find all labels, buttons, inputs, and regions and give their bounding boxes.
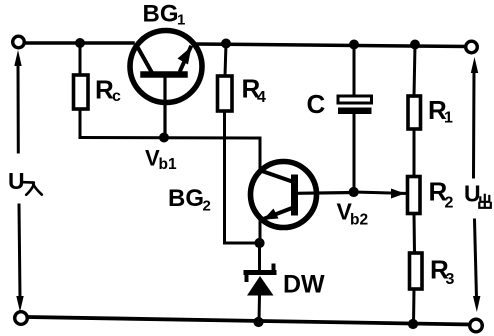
svg-text:BG: BG: [143, 1, 179, 28]
label Vb1: [145, 146, 177, 174]
svg-text:b2: b2: [350, 212, 368, 229]
wire bottom rail: [28, 317, 469, 325]
wire R1 to R2: [413, 129, 416, 177]
label R2: [429, 177, 454, 212]
wire top rail right segment: [196, 44, 467, 47]
node junction top rail at R1: [410, 40, 420, 50]
svg-text:b1: b1: [159, 156, 177, 173]
node junction top rail at R4: [221, 39, 231, 49]
transistor BG1: [130, 31, 202, 138]
svg-text:c: c: [112, 88, 121, 105]
capacitor C: [338, 96, 372, 114]
wire R4 lead to zener node: [225, 242, 259, 245]
svg-text:C: C: [307, 89, 326, 119]
node junction top rail at Rc: [75, 38, 85, 48]
svg-text:U: U: [8, 168, 25, 194]
node junction Vb1 at BG1 base: [159, 133, 169, 143]
label BG1: [143, 1, 186, 29]
label U_out subscript chu glyph: [479, 195, 491, 208]
node junction BG2 emitter / zener: [254, 238, 264, 248]
label U_in subscript ru glyph: [24, 182, 42, 195]
zener diode DW: [246, 243, 274, 322]
svg-text:4: 4: [257, 89, 266, 106]
label Rc: [95, 75, 121, 106]
svg-text:BG: BG: [168, 185, 204, 212]
wire top rail left segment: [24, 41, 133, 45]
svg-text:2: 2: [203, 198, 211, 215]
wire R4 top lead: [225, 43, 226, 76]
svg-text:3: 3: [446, 271, 455, 288]
resistor R3: [410, 253, 423, 289]
input terminal top-left: [13, 36, 25, 48]
input terminal bottom-left: [15, 312, 28, 325]
label R3: [430, 255, 455, 289]
node junction bottom rail at divider: [408, 319, 418, 329]
wire C bottom lead: [353, 114, 356, 192]
wire Rc bottom lead: [79, 109, 82, 138]
wire Vb2 to R2 wiper with arrow: [354, 189, 407, 199]
resistor R1: [408, 96, 421, 129]
U_out voltage arrow upper segment: [471, 57, 478, 177]
wire Rc top lead: [79, 43, 82, 75]
wire node Vb1 horizontal: [80, 136, 260, 140]
label U_in: [8, 168, 25, 194]
U_in voltage arrow upper segment: [14, 50, 21, 152]
svg-text:U: U: [464, 181, 481, 207]
output terminal bottom-right: [470, 319, 483, 332]
svg-text:DW: DW: [283, 271, 325, 299]
label BG2: [168, 185, 211, 215]
U_in voltage arrow lower segment: [16, 205, 23, 312]
resistor R2 potentiometer: [408, 177, 421, 214]
label R4: [242, 74, 267, 107]
label U_out: [464, 181, 481, 207]
wire R2 to R3: [413, 214, 417, 254]
node junction top rail at C: [349, 40, 359, 50]
wire BG2 emitter down: [259, 219, 262, 243]
label Vb2: [337, 199, 369, 229]
wire R4 bottom lead down: [223, 111, 226, 243]
transistor BG2: [251, 162, 354, 228]
wire R1 top lead: [414, 45, 415, 97]
svg-text:2: 2: [445, 195, 454, 212]
node junction Vb2: [349, 187, 359, 197]
U_out voltage arrow lower segment: [473, 220, 480, 312]
svg-text:1: 1: [444, 110, 453, 127]
label R1: [428, 95, 453, 127]
output terminal top-right: [466, 41, 478, 53]
resistor Rc: [74, 75, 89, 109]
resistor R4: [218, 76, 233, 111]
node junction bottom rail at zener: [253, 317, 263, 327]
wire R3 bottom lead: [412, 289, 416, 324]
wire C top lead: [353, 44, 356, 96]
svg-text:1: 1: [177, 12, 185, 29]
wire Vb1 corner down to BG2 collector: [259, 138, 262, 171]
